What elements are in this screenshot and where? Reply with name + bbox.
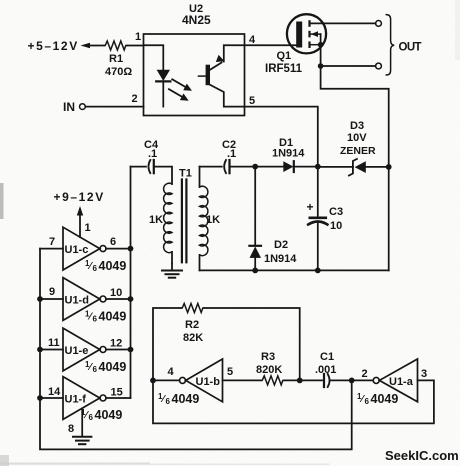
U1-a output feedback loop	[153, 380, 434, 423]
svg-text:10V: 10V	[347, 132, 367, 144]
U2 4N25 label	[182, 3, 211, 27]
bottom rail of rectifier	[200, 269, 389, 271]
capacitor C1	[323, 374, 325, 387]
wire secondary bottom lead	[199, 255, 201, 271]
svg-text:U1-c: U1-c	[65, 244, 89, 256]
node C3 bottom	[315, 268, 321, 274]
R2 82K labels	[183, 319, 203, 344]
wire secondary to C2	[200, 166, 222, 168]
svg-text:1N914: 1N914	[272, 148, 305, 160]
T1 label	[179, 168, 192, 180]
svg-text:7: 7	[49, 236, 55, 248]
watermark	[385, 448, 459, 463]
diode D2	[254, 167, 256, 245]
pin 4 label	[249, 34, 256, 46]
resistor R3	[261, 376, 284, 385]
resistor R1	[104, 41, 127, 50]
svg-text:82K: 82K	[183, 332, 203, 344]
svg-text:+5–12V: +5–12V	[28, 39, 79, 53]
LED inside U2	[144, 45, 164, 69]
diode D1	[255, 166, 283, 168]
svg-text:10: 10	[110, 287, 122, 299]
svg-text:6: 6	[89, 413, 94, 422]
svg-text:4: 4	[249, 34, 256, 46]
svg-text:ZENER: ZENER	[340, 145, 376, 157]
svg-text:D2: D2	[274, 239, 288, 251]
node C1 / pin 2 / chain feed	[349, 378, 355, 384]
optocoupler U2 box	[144, 34, 245, 116]
svg-text:470Ω: 470Ω	[105, 66, 132, 78]
node U1-b input pin 4	[150, 378, 156, 384]
R3 820K labels	[256, 351, 282, 376]
svg-text:2: 2	[362, 368, 368, 380]
brace	[386, 15, 394, 75]
wire R1 to opto pin 1	[127, 45, 143, 47]
svg-text:4049: 4049	[371, 392, 399, 406]
inverter U1-c	[40, 248, 63, 250]
output rail top wire to C4	[131, 166, 147, 168]
inverter U1-f	[40, 397, 63, 399]
svg-text:D3: D3	[350, 120, 364, 132]
node rectifier out	[315, 164, 321, 170]
transformer T1 primary coil	[164, 183, 172, 252]
svg-text:4049: 4049	[99, 310, 127, 324]
svg-text:IRF511: IRF511	[265, 63, 303, 75]
svg-text:R1: R1	[109, 53, 123, 65]
transformer T1 secondary coil	[199, 167, 201, 187]
wire C1 to U1-a input	[331, 379, 373, 381]
node D2 top	[252, 164, 258, 170]
junction input rail d input	[37, 296, 43, 302]
svg-text:U1-d: U1-d	[65, 295, 89, 307]
svg-text:1: 1	[135, 31, 141, 43]
junction output rail d output	[128, 296, 134, 302]
zener D3	[318, 166, 353, 168]
svg-text:14: 14	[48, 386, 61, 398]
node D2 bottom	[252, 268, 258, 274]
OUT terminals	[376, 21, 382, 27]
svg-text:+9–12V: +9–12V	[54, 190, 105, 204]
svg-text:10: 10	[330, 220, 342, 232]
body arrow	[311, 33, 321, 35]
+9-12V label	[54, 190, 105, 204]
capacitor C3	[317, 167, 319, 217]
capacitor C4	[148, 160, 150, 173]
pin 1 label	[135, 31, 141, 43]
wire C2 to node	[230, 166, 256, 168]
svg-text:1K: 1K	[149, 214, 163, 226]
svg-text:4049: 4049	[172, 392, 200, 406]
svg-text:1N914: 1N914	[264, 253, 297, 265]
IN terminal	[63, 100, 75, 114]
svg-text:1: 1	[85, 222, 91, 234]
power label +5-12V	[28, 39, 79, 53]
svg-text:.001: .001	[315, 364, 336, 376]
svg-text:.1: .1	[227, 148, 236, 160]
svg-text:4049: 4049	[99, 259, 127, 273]
pin5 wire down to node	[245, 107, 318, 167]
pin 5 label	[249, 95, 255, 107]
capacitor C2	[224, 160, 226, 173]
svg-text:15: 15	[111, 387, 123, 399]
source wire to OUT bottom	[321, 65, 376, 67]
svg-text:4N25: 4N25	[182, 13, 211, 27]
svg-text:9: 9	[49, 286, 55, 298]
power arrow into U1-c	[79, 215, 81, 237]
svg-text:5: 5	[227, 366, 233, 378]
winding value labels 1K	[149, 214, 220, 226]
resistor R2	[181, 304, 204, 313]
pin 1 label U1	[85, 222, 91, 234]
svg-text:SeekIC.com: SeekIC.com	[385, 448, 459, 463]
svg-text:4049: 4049	[99, 360, 127, 374]
light arrows	[172, 79, 186, 87]
inverter U1-e	[40, 349, 63, 351]
inverter U1-d	[40, 298, 63, 300]
junction output rail c output	[128, 246, 134, 252]
pin 4 label U1-b	[168, 366, 175, 378]
svg-text:4: 4	[168, 366, 175, 378]
wire pin4 to Q1 gate	[245, 44, 297, 46]
svg-text:11: 11	[48, 337, 60, 349]
supply arrow to R1	[81, 43, 91, 49]
svg-text:C1: C1	[320, 351, 334, 363]
svg-text:6: 6	[365, 397, 370, 406]
wire IN to opto pin 2	[85, 106, 143, 108]
junction output rail e output	[128, 347, 134, 353]
core bars	[181, 180, 183, 263]
ground under primary	[171, 264, 173, 271]
pin 5 label U1-b	[227, 366, 233, 378]
node R3/R2/C1 junction	[297, 378, 303, 384]
svg-text:+: +	[307, 200, 314, 214]
svg-text:6: 6	[93, 315, 98, 324]
svg-text:T1: T1	[179, 168, 192, 180]
svg-text:U1-e: U1-e	[65, 345, 89, 357]
svg-text:U1-b: U1-b	[196, 376, 221, 388]
svg-text:6: 6	[93, 365, 98, 374]
node D3 right rail	[386, 164, 392, 170]
svg-text:IN: IN	[63, 100, 75, 114]
svg-text:820K: 820K	[256, 364, 282, 376]
svg-text:5: 5	[249, 95, 255, 107]
wire R2 to R3/C1 node	[204, 308, 300, 380]
Q1 IRF511 label	[265, 50, 303, 75]
svg-text:6: 6	[93, 264, 98, 273]
pin 2 label	[132, 93, 138, 105]
drain wire to OUT top	[311, 22, 376, 24]
svg-text:R3: R3	[261, 351, 275, 363]
inverter U1-a (facing left)	[373, 377, 379, 383]
svg-text:6: 6	[110, 236, 116, 248]
svg-text:OUT: OUT	[399, 42, 422, 54]
svg-text:.1: .1	[148, 148, 157, 160]
phototransistor inside U2	[206, 65, 210, 86]
svg-text:2: 2	[132, 93, 138, 105]
svg-text:6: 6	[166, 397, 171, 406]
oscillator: R2 feedback top	[153, 308, 181, 380]
junction input rail f input	[37, 395, 43, 401]
svg-text:U1-a: U1-a	[389, 376, 414, 388]
svg-text:C3: C3	[329, 206, 343, 218]
source drop wire to D3 rail	[321, 66, 389, 167]
svg-text:Q1: Q1	[277, 50, 292, 62]
svg-text:3: 3	[421, 368, 427, 380]
OUT label	[399, 42, 422, 54]
pin 2 label U1-a	[362, 368, 368, 380]
D3 labels	[340, 120, 376, 157]
input rail of buffer chain	[40, 249, 352, 450]
svg-text:8: 8	[68, 423, 74, 435]
MOSFET Q1	[287, 14, 326, 53]
wire C4 to T1 primary	[154, 167, 172, 184]
wire right rail down	[388, 167, 390, 271]
ground pin 8 of U1	[81, 409, 83, 436]
svg-text:12: 12	[110, 338, 122, 350]
svg-text:U1-f: U1-f	[65, 394, 87, 406]
junction input rail e input	[37, 347, 43, 353]
pin 3 label U1-a	[421, 368, 427, 380]
node source	[318, 63, 324, 69]
output rail of buffer chain	[130, 167, 132, 398]
svg-text:R2: R2	[185, 319, 199, 331]
svg-text:4049: 4049	[95, 408, 123, 422]
